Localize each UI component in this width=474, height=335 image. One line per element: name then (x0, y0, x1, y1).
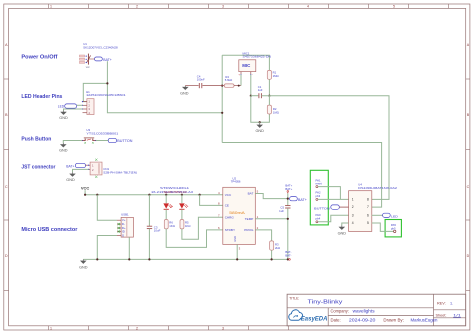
header H1 body (82, 99, 94, 115)
junction MIC minus (250, 95, 252, 97)
svg-text:LED: LED (58, 104, 65, 108)
wire MIC plus down to bias line (240, 75, 242, 86)
wire VCC flag stem (84, 190, 86, 195)
sheet value underline (453, 316, 461, 318)
JST connector CN1 body (88, 159, 102, 178)
capacitor C1 (251, 93, 262, 98)
ground at C4 (182, 86, 188, 90)
junction VCC rail at C3 (148, 194, 150, 196)
svg-text:3: 3 (222, 327, 224, 331)
wire button to ground (63, 141, 82, 144)
frame zone ticks bottom (49, 326, 289, 330)
junction at mic loop ground tap (259, 121, 261, 123)
pin PA0 terminal circle (316, 221, 318, 223)
svg-text:Power On/Off: Power On/Off (21, 54, 57, 60)
svg-text:D: D (467, 254, 470, 258)
svg-text:LED Header Pins: LED Header Pins (21, 94, 62, 100)
wire MIC minus down to output line (250, 75, 252, 96)
wire PA2 to U4 pin 1 (318, 198, 349, 200)
svg-text:1uF: 1uF (279, 209, 284, 213)
battery negative pin mark (289, 259, 291, 261)
LED2 standby indicator (179, 195, 188, 220)
wire VCC rail to U2 CE (200, 195, 223, 206)
junction battery node at BAT wire (287, 198, 289, 200)
svg-text:GND: GND (255, 129, 264, 133)
svg-text:-: - (252, 73, 253, 76)
ground at header (61, 111, 67, 115)
selection box around pin PA5 (385, 220, 401, 237)
capacitor C4 (185, 83, 224, 88)
svg-text:Company:: Company: (331, 308, 349, 313)
junction ground rail at USB G (96, 258, 98, 260)
capacitor C5 (285, 206, 290, 208)
EasyEDA logo arrow (293, 315, 297, 317)
capacitor C3 (147, 195, 152, 260)
wire USB G to ground rail (97, 236, 117, 260)
junction ground rail at C3 (148, 258, 150, 260)
junction ground rail at U2 GND (236, 258, 238, 260)
svg-text:BAT-: BAT- (285, 253, 291, 257)
svg-text:CHRG: CHRG (225, 215, 235, 219)
title block row divider 1 (287, 307, 433, 309)
net flag BAT+ at switch (88, 57, 111, 62)
ground at button (60, 143, 66, 147)
junction battery node at TEMP wire (287, 218, 289, 220)
svg-text:3: 3 (222, 5, 224, 9)
svg-text:6: 6 (367, 213, 369, 217)
svg-text:2: 2 (136, 5, 138, 9)
svg-text:1MΩ: 1MΩ (273, 74, 279, 78)
wire R2 top to mic output line (268, 96, 270, 105)
junction at R4 MIC node (238, 85, 240, 87)
net flag LED at U4 (383, 213, 399, 218)
title block column divider right (433, 294, 435, 326)
junction ground rail at USB shield (128, 258, 130, 260)
wire U4 pin 5 to PA5 (372, 223, 394, 231)
svg-text:5: 5 (393, 5, 395, 9)
wire R5 to U2 CHRG (182, 217, 223, 239)
svg-text:C: C (5, 185, 8, 189)
junction VCC rail at CE drop (199, 194, 201, 196)
svg-text:1/1: 1/1 (453, 314, 460, 318)
battery positive pin labels BAT+ BAT+ (285, 183, 292, 190)
svg-text:USB1: USB1 (121, 213, 129, 217)
svg-text:EasyEDA: EasyEDA (301, 316, 328, 323)
svg-text:GND: GND (59, 149, 68, 153)
svg-text:5.6kΩ: 5.6kΩ (225, 78, 232, 82)
MCU U4 body (349, 191, 372, 232)
pin PA5 terminal circle (394, 230, 396, 232)
junction ground rail at R3 (271, 258, 273, 260)
svg-text:GND: GND (79, 265, 88, 269)
wire U2 PROG to R3 (255, 230, 271, 241)
svg-text:GND: GND (59, 116, 68, 120)
JST CN1 pin numbers (92, 163, 94, 172)
pin PA2 pb3 label (316, 191, 322, 198)
svg-text:2kΩ: 2kΩ (275, 246, 280, 250)
svg-text:S2B-PH-SMA-TBLT(EN): S2B-PH-SMA-TBLT(EN) (103, 170, 137, 174)
svg-text:Push Button: Push Button (21, 137, 51, 143)
ground at U4 (339, 226, 345, 230)
ground rail bottom (83, 258, 287, 260)
svg-text:GND: GND (233, 236, 237, 242)
svg-text:1: 1 (50, 327, 52, 331)
pushbutton U3 body (81, 138, 96, 144)
svg-text:YTS1C0533BB001: YTS1C0533BB001 (86, 132, 118, 136)
svg-text:5: 5 (367, 221, 369, 225)
svg-text:reset: reset (316, 182, 322, 186)
wire branch to header pin 1 (83, 83, 107, 101)
net flag BUTTON (108, 138, 133, 143)
U2 pin numbers (218, 190, 259, 251)
USB1 pin names (122, 218, 126, 237)
junction at switch branch (106, 82, 108, 84)
svg-text:BAT+: BAT+ (66, 165, 74, 169)
wire header pin 3 to ground (64, 109, 83, 111)
wire U2 BAT to battery node (255, 194, 287, 199)
svg-text:1225103CNG05/1/8601: 1225103CNG05/1/8601 (86, 93, 126, 97)
title block column divider logo (327, 308, 329, 326)
wire battery node vertical (287, 193, 289, 205)
svg-text:TITLE:: TITLE: (289, 296, 299, 300)
svg-text:3: 3 (352, 213, 354, 217)
U4 pin numbers (352, 198, 369, 226)
resistor R5 body (180, 220, 184, 229)
wire mic output line to U4 pin 8 (261, 96, 389, 200)
title block row divider 2 (328, 314, 433, 316)
svg-text:4: 4 (352, 221, 354, 225)
svg-text:Micro USB connector: Micro USB connector (21, 227, 78, 233)
junction VCC rail at LED1 (165, 194, 167, 196)
wire U2 GND pin to ground rail (236, 244, 238, 259)
svg-text:TEMP: TEMP (245, 217, 254, 221)
svg-text:8: 8 (367, 198, 369, 202)
resistor R2 body (267, 105, 271, 114)
svg-text:DS1099-08AT1NX-0A2: DS1099-08AT1NX-0A2 (358, 186, 397, 190)
svg-text:580mA: 580mA (229, 211, 245, 215)
svg-text:MarkusEugen: MarkusEugen (411, 318, 439, 323)
wire VCC run to U4 pin 7 (222, 143, 381, 208)
pin PA1 reset label (316, 178, 322, 185)
USB connector USB1 body (117, 217, 133, 237)
title block sheet cell divider (434, 317, 466, 319)
wire R4 to MIC plus (234, 85, 241, 87)
svg-text:Drawn By:: Drawn By: (383, 318, 404, 323)
svg-text:1: 1 (352, 198, 354, 202)
wire battery node vertical lower (287, 208, 289, 259)
frame zone numbers (50, 5, 395, 331)
U2 pin names (225, 192, 254, 242)
wire ground tap stem (259, 122, 261, 123)
svg-text:100nF: 100nF (197, 78, 205, 82)
pin PA0 pb4 label (316, 213, 322, 220)
junction VCC rail at flag (84, 194, 86, 196)
wire VCC top to R1 (222, 55, 269, 70)
wire U4 pin 4 to ground (342, 223, 349, 226)
junction VCC rail at LED2 (181, 194, 183, 196)
frame zone ticks left and right (4, 79, 470, 291)
svg-text:REV:: REV: (437, 302, 446, 306)
svg-text:LED: LED (391, 214, 399, 218)
junction VCC at mic bias line (221, 85, 223, 87)
wire PA0 to U4 pin 3 (318, 215, 349, 222)
wire mic loop down to ground bar (251, 96, 270, 123)
ground at JST (70, 172, 76, 176)
wire BAT+ flag to JST pin 1 (86, 164, 89, 166)
title block REV cell divider (434, 309, 466, 311)
svg-text:SK12D07VG3_C2340N28: SK12D07VG3_C2340N28 (83, 45, 118, 49)
svg-text:GND: GND (338, 231, 347, 235)
wire VCC vertical run (221, 55, 223, 142)
switch U1 body (79, 54, 90, 65)
resistor R6 body (164, 220, 168, 229)
svg-text:CE: CE (225, 204, 229, 208)
svg-text:PROG: PROG (244, 228, 254, 232)
svg-text:GND: GND (180, 91, 189, 95)
wire U2 TEMP to battery node (255, 218, 287, 220)
svg-text:pb5: pb5 (391, 226, 396, 230)
wire R6 to U2 STDBY (166, 229, 223, 248)
wire VCC rail (85, 194, 223, 196)
pin PA1 terminal circle (316, 186, 318, 188)
LED1 charge indicator (163, 195, 172, 220)
svg-text:MIC: MIC (242, 63, 251, 68)
wire USB V+ to VCC rail (97, 195, 117, 221)
svg-text:1KΩ: 1KΩ (185, 224, 191, 228)
frame zone letters (5, 43, 470, 258)
frame zone ticks top (49, 4, 449, 8)
net flag BAT+ mid (290, 197, 307, 202)
resistor R4 body (224, 84, 234, 87)
svg-text:4: 4 (307, 5, 309, 9)
svg-text:2024-09-20: 2024-09-20 (349, 317, 376, 322)
wire BUTTON flag to U4 pin 2 (339, 206, 348, 208)
charger U2 body (223, 187, 256, 244)
svg-text:pb3: pb3 (316, 194, 321, 198)
ground at mic loop (257, 123, 263, 127)
pin PA5 pb5 label (391, 223, 397, 230)
svg-text:S4573368425-DN: S4573368425-DN (243, 55, 272, 59)
microphone MIC1 body (238, 60, 255, 77)
wire U4 pin 6 to LED flag (372, 214, 383, 216)
junction VCC rail at USB (96, 194, 98, 196)
junction ground rail at battery minus (287, 258, 289, 260)
junction VCC at switch run (221, 112, 223, 114)
svg-text:BAT+: BAT+ (285, 187, 292, 191)
svg-text:BAT+: BAT+ (298, 198, 307, 202)
svg-text:1KΩ: 1KΩ (169, 224, 175, 228)
svg-text:10uF: 10uF (154, 229, 161, 233)
svg-text:wavelights: wavelights (353, 308, 375, 313)
svg-text:VCC: VCC (81, 185, 90, 190)
svg-text:STDBY: STDBY (225, 228, 235, 232)
svg-text:SEJRC/S530-A3: SEJRC/S530-A3 (164, 190, 188, 194)
selection box around MCU pins (310, 170, 328, 225)
svg-text:TP4056: TP4056 (231, 180, 241, 184)
net flag BAT+ at JST (66, 163, 85, 168)
wire R1 bottom to mic output line (268, 79, 270, 95)
svg-text:7: 7 (367, 205, 369, 209)
net flag BUTTON at U4 (314, 205, 339, 211)
junction R1 at mic output (268, 95, 270, 97)
svg-text:BUTTON: BUTTON (117, 139, 133, 143)
svg-text:JST connector: JST connector (21, 164, 56, 170)
net flag LED at header (58, 104, 77, 108)
svg-text:C: C (467, 185, 470, 189)
svg-text:2: 2 (136, 327, 138, 331)
header H1 pin numbers (88, 100, 90, 115)
svg-text:1MΩ: 1MΩ (273, 110, 279, 114)
battery negative pin labels BAT- BAT- (285, 250, 291, 257)
svg-text:1.: 1. (450, 302, 453, 306)
battery positive pin mark (287, 191, 289, 194)
wire USB shield to ground rail (128, 237, 130, 259)
wire JST pin 2 to ground (73, 169, 89, 172)
pin PA2 terminal circle (316, 198, 318, 200)
wire PA1 to U4 pin 1 (318, 187, 340, 200)
svg-text:1: 1 (50, 5, 52, 9)
svg-text:GND: GND (66, 178, 75, 182)
wire button to BUTTON flag (96, 140, 108, 142)
resistor R1 body (267, 70, 271, 79)
svg-text:D: D (5, 254, 8, 258)
wire switch net down to VCC run (107, 83, 222, 112)
svg-text:Tiny-Blinky: Tiny-Blinky (308, 299, 343, 305)
wire LED flag to header pin 2 (77, 104, 83, 106)
wire switch output down (106, 61, 108, 83)
ground at rail left end (80, 259, 86, 263)
svg-text:2: 2 (352, 205, 354, 209)
resistor R3 body (270, 241, 274, 250)
svg-text:BUTTON: BUTTON (314, 207, 329, 211)
wire R3 to ground rail (271, 250, 273, 259)
EasyEDA logo cloud (289, 310, 303, 320)
title block outline (287, 294, 466, 326)
svg-text:1uF: 1uF (258, 88, 263, 92)
svg-text:BAT: BAT (248, 192, 254, 196)
svg-text:Date:: Date: (331, 317, 341, 322)
svg-text:VCC: VCC (225, 193, 232, 197)
svg-text:pb4: pb4 (316, 216, 321, 220)
